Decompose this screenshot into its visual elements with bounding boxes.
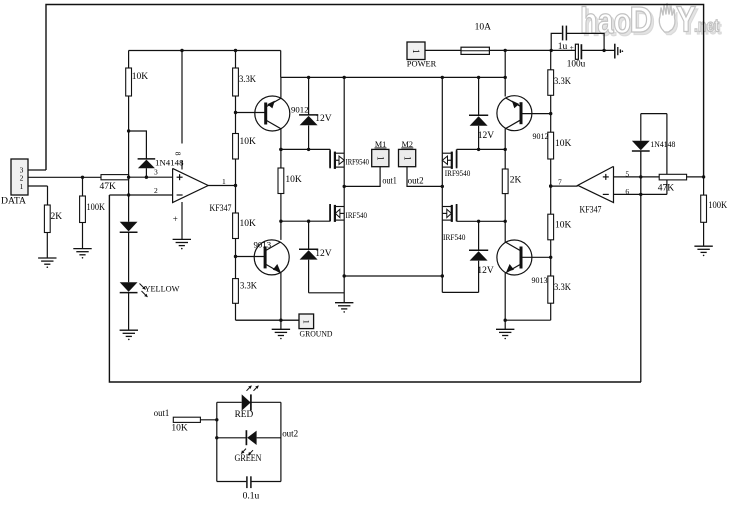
svg-text:3: 3 — [154, 167, 158, 176]
svg-text:2K: 2K — [51, 212, 63, 222]
svg-text:1: 1 — [376, 156, 386, 161]
svg-text:10K: 10K — [240, 219, 257, 229]
svg-text:1N4148: 1N4148 — [650, 140, 675, 149]
svg-text:1: 1 — [301, 320, 311, 324]
svg-text:1: 1 — [411, 49, 421, 54]
svg-text:8: 8 — [174, 152, 183, 156]
svg-text:100u: 100u — [567, 60, 586, 70]
svg-text:12V: 12V — [315, 249, 332, 259]
svg-text:3.3K: 3.3K — [554, 283, 571, 293]
svg-text:IRF9540: IRF9540 — [445, 169, 471, 178]
svg-text:12V: 12V — [477, 266, 494, 276]
svg-text:out2: out2 — [282, 429, 298, 439]
svg-text:+: + — [570, 43, 574, 52]
svg-text:10A: 10A — [475, 23, 492, 33]
svg-text:10K: 10K — [171, 424, 188, 434]
svg-text:9013: 9013 — [532, 275, 549, 285]
svg-text:GROUND: GROUND — [300, 330, 333, 339]
svg-text:9012: 9012 — [533, 131, 549, 141]
svg-text:10K: 10K — [285, 175, 302, 185]
svg-text:47K: 47K — [100, 182, 117, 192]
svg-text:10K: 10K — [555, 221, 572, 231]
svg-text:7: 7 — [558, 178, 562, 187]
svg-text:GREEN: GREEN — [235, 454, 262, 464]
svg-text:9013: 9013 — [254, 240, 272, 250]
svg-text:2K: 2K — [510, 176, 522, 186]
svg-text:out2: out2 — [408, 177, 424, 187]
svg-text:IRF9540: IRF9540 — [346, 158, 370, 167]
svg-text:1: 1 — [222, 177, 226, 186]
svg-text:10K: 10K — [555, 139, 572, 149]
svg-text:RED: RED — [235, 410, 254, 420]
svg-text:.net: .net — [694, 16, 719, 36]
svg-text:M1: M1 — [375, 140, 386, 149]
svg-text:KF347: KF347 — [210, 204, 232, 214]
svg-text:12V: 12V — [315, 114, 332, 124]
svg-text:YELLOW: YELLOW — [145, 284, 181, 294]
svg-text:6: 6 — [625, 187, 629, 196]
svg-text:10K: 10K — [240, 137, 257, 147]
svg-text:1: 1 — [20, 182, 24, 191]
svg-text:IRF540: IRF540 — [346, 211, 368, 220]
svg-text:Y: Y — [676, 0, 696, 40]
svg-text:hao: hao — [580, 0, 631, 41]
svg-text:1: 1 — [402, 156, 412, 161]
svg-text:out1: out1 — [382, 177, 397, 187]
svg-text:5: 5 — [625, 169, 629, 178]
svg-text:0.1u: 0.1u — [243, 491, 260, 501]
svg-text:KF347: KF347 — [580, 205, 602, 215]
svg-text:POWER: POWER — [407, 59, 437, 68]
svg-text:9012: 9012 — [291, 105, 309, 115]
svg-text:3.3K: 3.3K — [239, 75, 256, 85]
svg-text:M2: M2 — [402, 140, 413, 149]
svg-text:12V: 12V — [478, 131, 495, 141]
svg-text:3.3K: 3.3K — [240, 282, 257, 292]
svg-text:2: 2 — [154, 186, 158, 195]
svg-text:1u: 1u — [558, 42, 568, 52]
svg-text:1N4148: 1N4148 — [155, 158, 184, 167]
svg-text:100K: 100K — [708, 201, 727, 211]
svg-text:100K: 100K — [87, 203, 106, 213]
svg-text:IRF540: IRF540 — [443, 233, 466, 242]
svg-text:10K: 10K — [132, 72, 149, 82]
svg-text:out1: out1 — [154, 409, 170, 419]
svg-text:3.3K: 3.3K — [554, 77, 571, 87]
svg-text:+: + — [173, 214, 178, 224]
svg-text:47K: 47K — [658, 184, 675, 194]
svg-text:D: D — [630, 0, 653, 40]
svg-text:DATA: DATA — [1, 197, 26, 207]
